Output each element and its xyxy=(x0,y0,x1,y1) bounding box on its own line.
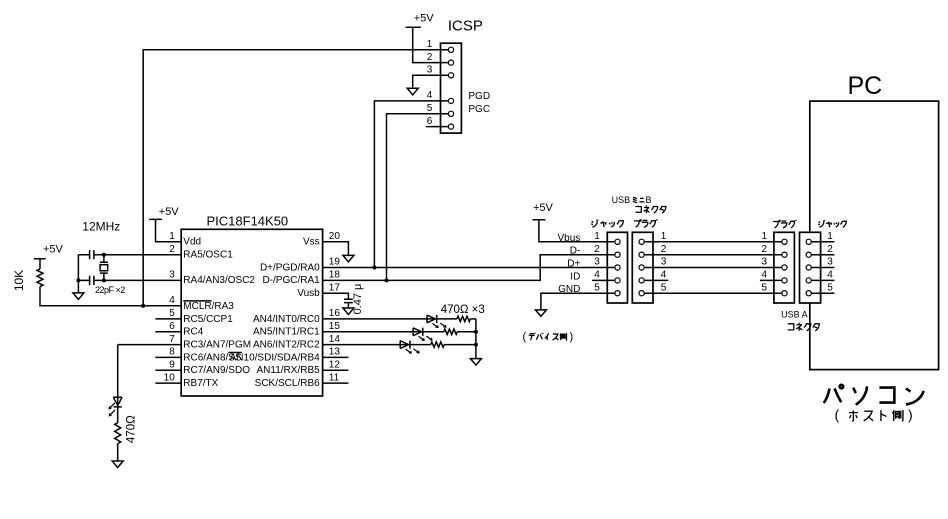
svg-text:13: 13 xyxy=(329,347,341,358)
svg-text:1: 1 xyxy=(761,231,767,242)
svg-text:3: 3 xyxy=(661,257,667,268)
svg-text:17: 17 xyxy=(329,282,341,293)
svg-text:4: 4 xyxy=(761,270,767,281)
svg-text:2: 2 xyxy=(427,52,433,63)
svg-text:Vusb: Vusb xyxy=(297,288,320,299)
svg-text:D-: D- xyxy=(570,246,581,257)
svg-text:5: 5 xyxy=(827,282,833,293)
svg-text:B: B xyxy=(646,195,652,205)
svg-text:RC3/AN7/PGM: RC3/AN7/PGM xyxy=(183,340,251,351)
svg-text:Vbus: Vbus xyxy=(558,233,581,244)
svg-text:1: 1 xyxy=(827,231,833,242)
svg-text:MCLR/RA3: MCLR/RA3 xyxy=(183,301,234,312)
svg-text:2: 2 xyxy=(827,244,833,255)
svg-text:5: 5 xyxy=(761,282,767,293)
svg-text:4: 4 xyxy=(169,295,175,306)
svg-text:Vss: Vss xyxy=(303,237,320,248)
svg-text:470Ω ×3: 470Ω ×3 xyxy=(441,304,485,316)
svg-text:1: 1 xyxy=(427,39,433,50)
svg-text:(: ( xyxy=(835,407,840,423)
svg-text:6: 6 xyxy=(427,116,433,127)
svg-text:4: 4 xyxy=(427,90,433,101)
svg-text:AN11/RX/RB5: AN11/RX/RB5 xyxy=(257,365,321,376)
svg-text:12MHz: 12MHz xyxy=(82,220,120,234)
svg-text:AN5/INT1/RC1: AN5/INT1/RC1 xyxy=(253,327,320,338)
svg-text:18: 18 xyxy=(329,270,341,281)
svg-text:16: 16 xyxy=(329,308,341,319)
svg-text:GND: GND xyxy=(558,284,580,295)
svg-text:11: 11 xyxy=(329,372,340,383)
svg-text:D+: D+ xyxy=(567,259,580,270)
svg-text:3: 3 xyxy=(169,270,175,281)
svg-text:ID: ID xyxy=(570,271,580,282)
svg-text:AN10/SDI/SDA/RB4: AN10/SDI/SDA/RB4 xyxy=(230,352,320,363)
svg-text:10K: 10K xyxy=(12,270,26,291)
svg-text:PIC18F14K50: PIC18F14K50 xyxy=(207,214,289,229)
svg-text:5: 5 xyxy=(427,103,433,114)
svg-text:2: 2 xyxy=(594,244,600,255)
svg-text:12: 12 xyxy=(329,360,341,371)
svg-text:): ) xyxy=(908,407,913,423)
svg-text:(: ( xyxy=(523,331,527,343)
svg-text:): ) xyxy=(570,331,574,343)
svg-text:PGC: PGC xyxy=(468,104,490,115)
svg-text:ICSP: ICSP xyxy=(448,18,483,35)
svg-text:D-/PGC/RA1: D-/PGC/RA1 xyxy=(262,275,320,286)
svg-text:+5V: +5V xyxy=(159,206,180,218)
svg-text:14: 14 xyxy=(329,334,341,345)
svg-text:RA4/AN3/OSC2: RA4/AN3/OSC2 xyxy=(183,275,255,286)
svg-text:1: 1 xyxy=(594,231,600,242)
svg-text:470Ω: 470Ω xyxy=(125,415,137,443)
svg-text:RC7/AN9/SDO: RC7/AN9/SDO xyxy=(183,365,250,376)
svg-text:RC4: RC4 xyxy=(183,327,203,338)
svg-text:10: 10 xyxy=(164,372,176,383)
svg-text:3: 3 xyxy=(594,257,600,268)
svg-text:4: 4 xyxy=(827,270,833,281)
svg-text:22pF ×2: 22pF ×2 xyxy=(95,285,125,295)
svg-text:PGD: PGD xyxy=(468,91,490,102)
svg-text:9: 9 xyxy=(169,360,175,371)
svg-text:3: 3 xyxy=(827,257,833,268)
svg-text:5: 5 xyxy=(661,282,667,293)
svg-text:Vdd: Vdd xyxy=(183,237,201,248)
svg-text:USB A: USB A xyxy=(781,310,808,320)
svg-text:SCK/SCL/RB6: SCK/SCL/RB6 xyxy=(255,378,320,389)
svg-text:PC: PC xyxy=(848,72,883,100)
svg-text:+5V: +5V xyxy=(43,244,64,256)
svg-text:+5V: +5V xyxy=(414,12,435,24)
svg-text:15: 15 xyxy=(329,321,341,332)
svg-text:AN6/INT2/RC2: AN6/INT2/RC2 xyxy=(253,340,320,351)
svg-text:0.47 μ: 0.47 μ xyxy=(352,284,364,315)
svg-text:19: 19 xyxy=(329,257,341,268)
svg-text:1: 1 xyxy=(169,231,175,242)
svg-text:1: 1 xyxy=(661,231,667,242)
svg-text:8: 8 xyxy=(169,347,175,358)
svg-text:+5V: +5V xyxy=(533,202,554,214)
svg-text:5: 5 xyxy=(594,282,600,293)
svg-text:USB: USB xyxy=(612,195,631,205)
svg-text:3: 3 xyxy=(427,65,433,76)
svg-text:RB7/TX: RB7/TX xyxy=(183,378,218,389)
svg-text:AN4/INT0/RC0: AN4/INT0/RC0 xyxy=(253,314,320,325)
svg-text:3: 3 xyxy=(761,257,767,268)
svg-text:20: 20 xyxy=(329,231,341,242)
svg-text:RC5/CCP1: RC5/CCP1 xyxy=(183,314,233,325)
svg-text:D+/PGD/RA0: D+/PGD/RA0 xyxy=(260,262,320,273)
svg-text:5: 5 xyxy=(169,308,175,319)
svg-text:7: 7 xyxy=(169,334,175,345)
svg-text:2: 2 xyxy=(661,244,667,255)
svg-text:2: 2 xyxy=(761,244,767,255)
svg-text:2: 2 xyxy=(169,244,175,255)
svg-text:4: 4 xyxy=(661,270,667,281)
svg-text:4: 4 xyxy=(594,270,600,281)
svg-text:6: 6 xyxy=(169,321,175,332)
svg-text:RA5/OSC1: RA5/OSC1 xyxy=(183,250,233,261)
